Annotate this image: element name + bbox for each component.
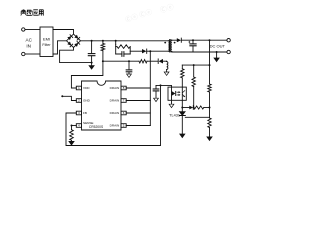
ground opto emitter	[169, 104, 174, 107]
svg-text:DRAIN: DRAIN	[110, 124, 120, 128]
title text 典型应用	[21, 9, 44, 15]
node B+ C1	[91, 40, 93, 42]
transformer primary	[168, 41, 169, 51]
node SENSE	[71, 125, 73, 127]
node divider right mid	[209, 107, 211, 109]
label DRAIN	[110, 111, 120, 115]
capacitor C-vdd	[126, 61, 132, 74]
wire TL431 ref	[185, 116, 209, 118]
wire cathode link	[182, 107, 209, 109]
label SENSE	[83, 121, 94, 125]
label AC IN	[26, 38, 33, 49]
terminal AC L	[22, 28, 25, 31]
capacitor C1 bulk	[88, 41, 95, 63]
label DRAIN	[110, 124, 120, 128]
node primary GND	[91, 62, 93, 64]
pin 1 box	[76, 86, 81, 90]
ground C-fb	[154, 98, 159, 101]
ground VDD cap	[127, 74, 132, 77]
wire VDD aux line	[103, 60, 158, 62]
node B+ R-startup	[102, 40, 104, 42]
pin 4 box	[76, 124, 81, 128]
optocoupler U2	[168, 87, 186, 100]
svg-text:IN: IN	[26, 43, 31, 48]
wire secondary top	[172, 39, 177, 41]
capacitor C-fb	[153, 85, 159, 97]
svg-text:DRAIN: DRAIN	[110, 111, 120, 115]
wire divider link	[182, 64, 209, 66]
wire FB bus	[66, 85, 161, 145]
node divider mid-top	[193, 64, 195, 66]
op-amp U1 IC body CR5200S	[82, 81, 122, 130]
diode D-out	[177, 38, 182, 42]
wire DC- rail	[172, 51, 227, 53]
ground R-right	[207, 137, 212, 141]
terminal DC-	[227, 50, 230, 53]
label GND	[83, 99, 91, 103]
label VDD	[83, 86, 90, 90]
svg-text:DRAIN: DRAIN	[110, 99, 120, 103]
node divider right-top	[209, 64, 211, 66]
transformer phase dot secondary	[174, 42, 176, 44]
node divider mid	[193, 107, 195, 109]
wire drain bus	[149, 51, 151, 125]
node VDD left	[102, 60, 104, 62]
resistor R-startup	[101, 41, 105, 61]
ground R-sense	[69, 141, 74, 145]
bridge rectifier BR1	[67, 34, 81, 47]
wire VDD to pin1	[71, 61, 103, 88]
svg-text:DRAIN: DRAIN	[110, 86, 120, 90]
wire EMI bottom to bridge	[53, 41, 67, 54]
resistor R-fb	[194, 106, 204, 109]
wire drain pin 5	[126, 125, 150, 127]
wire AC bottom	[25, 53, 40, 55]
resistor R-upper	[192, 65, 195, 107]
wire snubber out	[130, 50, 142, 52]
svg-text:FB: FB	[83, 111, 87, 115]
diode D-aux	[158, 59, 166, 64]
pin 7 box	[121, 99, 126, 103]
resistor R-snubber	[117, 45, 130, 49]
ground TL431	[180, 134, 185, 138]
resistor R-sense	[70, 126, 74, 142]
pin 6 box	[121, 111, 126, 115]
wire bridge negative	[60, 48, 92, 63]
resistor R-right-bottom	[208, 118, 211, 137]
wire snubber stub	[115, 41, 117, 45]
svg-text:CR5200S: CR5200S	[89, 125, 104, 129]
node DC+ cap	[192, 39, 194, 41]
node LED cathode	[181, 107, 183, 109]
shunt regulator TL431	[179, 112, 185, 134]
label CR5200S	[89, 125, 104, 129]
node pin2 dead-end	[61, 95, 63, 97]
wire AC top	[25, 29, 40, 31]
node DC+ divider	[209, 39, 211, 41]
wire B+ rail	[81, 40, 169, 42]
resistor R-vdd series	[139, 60, 147, 63]
label DRAIN	[110, 86, 120, 90]
wire EMI top to bridge	[53, 30, 74, 35]
diode D-snubber	[142, 49, 150, 53]
node drain	[149, 50, 151, 52]
node VDD cap	[128, 60, 130, 62]
wire drain pin 7	[126, 100, 150, 102]
svg-text:EMI: EMI	[43, 36, 50, 41]
ground primary bus	[89, 63, 94, 70]
svg-text:TL431: TL431	[169, 113, 180, 117]
pin 8 box	[121, 86, 126, 90]
label TL431	[169, 113, 180, 117]
label DC OUT	[210, 44, 226, 49]
wire opto emitter	[171, 100, 173, 104]
diode D-fb	[189, 106, 193, 110]
capacitor C-out	[188, 40, 196, 52]
wire opto LED cathode	[181, 100, 183, 111]
wire DC+ rail	[181, 39, 227, 41]
aux winding	[167, 61, 168, 72]
transformer phase dot primary	[164, 42, 166, 44]
EMI filter box	[40, 27, 53, 57]
pin 3 box	[76, 111, 81, 115]
transformer secondary	[171, 40, 172, 51]
svg-text:VDD: VDD	[83, 86, 90, 90]
svg-text:GND: GND	[83, 99, 91, 103]
capacitor C-snubber	[116, 52, 131, 57]
ground secondary	[214, 52, 219, 62]
wire pin4 SENSE	[72, 125, 77, 127]
label FB	[83, 111, 87, 115]
node FB junction	[160, 84, 162, 86]
wire pin2 GND	[62, 96, 76, 100]
terminal AC N	[22, 52, 25, 55]
pin 2 box	[76, 99, 81, 103]
resistor R-opto	[181, 65, 184, 87]
wire snubber frame	[116, 44, 131, 54]
decorative watermark	[124, 1, 175, 26]
label DRAIN	[110, 99, 120, 103]
svg-text:DC OUT: DC OUT	[210, 44, 226, 49]
svg-text:AC: AC	[26, 38, 33, 43]
node B+ snubber	[115, 40, 117, 42]
node DC- gnd	[216, 51, 218, 53]
wire drain pin 6	[126, 112, 150, 114]
wire primary bottom	[150, 50, 168, 52]
resistor R-right-top	[208, 40, 211, 118]
wire drain pin 8	[126, 87, 150, 89]
transformer core	[170, 40, 171, 52]
terminal DC+	[227, 39, 230, 42]
wire opto collector	[156, 85, 172, 87]
svg-text:Filter: Filter	[42, 43, 51, 47]
pin 5 box	[121, 124, 126, 128]
ground aux winding	[164, 72, 169, 75]
